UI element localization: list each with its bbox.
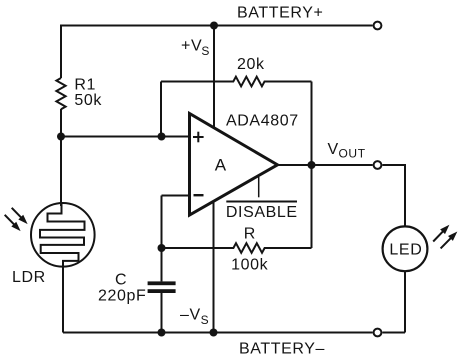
- svg-text:100k: 100k: [231, 257, 268, 274]
- pin DISABLE: [258, 177, 260, 197]
- wire LDR to bottom rail: [62, 266, 64, 333]
- capacitor C: [148, 281, 176, 293]
- svg-text:DISABLE: DISABLE: [226, 204, 298, 221]
- svg-text:LED: LED: [389, 241, 422, 258]
- svg-text:R: R: [244, 225, 256, 242]
- svg-text:–V: –V: [180, 306, 201, 323]
- junction feedback R node: [158, 244, 166, 252]
- label C 220pF: [98, 271, 146, 304]
- wire +Vs supply to op-amp: [213, 26, 215, 128]
- svg-text:+V: +V: [181, 38, 202, 55]
- label R1 50k: [74, 77, 102, 109]
- wire R1 to LDR: [60, 109, 62, 206]
- wire −Vs supply: [213, 201, 215, 332]
- svg-text:S: S: [201, 313, 210, 327]
- resistor 20k: [161, 77, 312, 87]
- svg-text:OUT: OUT: [339, 147, 366, 161]
- junction capacitor bottom: [158, 329, 166, 337]
- svg-text:V: V: [328, 141, 339, 158]
- terminal VOUT: [374, 161, 382, 169]
- svg-text:20k: 20k: [237, 56, 265, 73]
- terminal BATTERY+: [374, 22, 382, 30]
- wire left branch from top rail to R1: [60, 25, 62, 79]
- wire capacitor to bottom rail: [161, 293, 163, 333]
- svg-text:C: C: [115, 271, 127, 288]
- junction R1/LDR node: [57, 133, 65, 141]
- terminal BATTERY−: [374, 329, 382, 337]
- wire inverting node vertical: [161, 196, 163, 282]
- label +Vs: [181, 38, 210, 59]
- wire VOUT to LED: [382, 165, 405, 227]
- wire top BATTERY+ rail: [61, 25, 373, 27]
- wire output: [276, 164, 373, 166]
- op-amp A ADA4807: [190, 114, 278, 216]
- label − input: [194, 194, 204, 196]
- wire feedback vertical: [311, 82, 313, 249]
- light arrows from LED: [431, 222, 460, 250]
- wire bottom BATTERY− rail: [63, 332, 373, 334]
- label DISABLE with overline: [226, 202, 298, 221]
- junction output/feedback: [308, 161, 316, 169]
- svg-text:50k: 50k: [74, 92, 102, 109]
- svg-text:BATTERY–: BATTERY–: [239, 341, 325, 358]
- label VOUT: [328, 141, 366, 161]
- wire 20k left leg: [160, 82, 162, 137]
- wire inverting input: [162, 195, 190, 197]
- wire LED to bottom rail: [404, 271, 406, 332]
- svg-text:LDR: LDR: [12, 269, 46, 286]
- svg-text:220pF: 220pF: [98, 288, 146, 305]
- label R 100k: [231, 225, 268, 273]
- junction −Vs bottom: [210, 329, 218, 337]
- resistor R1: [56, 78, 65, 109]
- led LED: [383, 226, 428, 271]
- photoresistor LDR: [31, 203, 95, 268]
- resistor R: [162, 243, 312, 253]
- label −Vs: [180, 306, 209, 327]
- label + input: [193, 132, 204, 143]
- light arrows into LDR: [2, 205, 30, 233]
- svg-text:ADA4807: ADA4807: [226, 113, 299, 130]
- svg-text:S: S: [201, 44, 210, 58]
- wire non-inverting input: [61, 136, 190, 138]
- svg-text:A: A: [215, 155, 227, 174]
- svg-text:BATTERY+: BATTERY+: [237, 5, 323, 22]
- junction +Vs tap on top rail: [210, 22, 218, 30]
- wire bottom rail to LED branch: [382, 332, 405, 334]
- junction +input / 20k node: [158, 133, 166, 141]
